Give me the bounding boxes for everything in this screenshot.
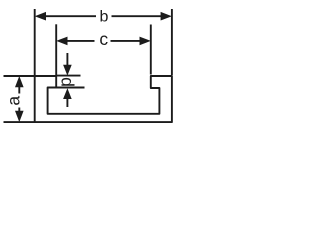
arrowhead b right — [161, 12, 172, 21]
dimension line c — [65, 40, 141, 42]
svg-text:b: b — [100, 8, 109, 25]
extension line a top — [4, 75, 35, 77]
svg-text:a: a — [3, 96, 23, 106]
dimension line a — [18, 86, 20, 112]
arrowhead p upper (points down) — [63, 65, 72, 76]
p upper arrow tail — [66, 53, 68, 66]
extension line b right — [171, 9, 173, 75]
extension line b left — [34, 9, 36, 76]
arrowhead a top — [15, 76, 24, 87]
extension line a bottom — [4, 121, 35, 123]
extension line p top — [56, 75, 80, 77]
p lower arrow tail — [66, 99, 68, 108]
svg-text:c: c — [99, 29, 108, 49]
svg-text:p: p — [55, 77, 75, 87]
extension line c left — [55, 24, 57, 75]
arrowhead a bottom — [15, 111, 24, 122]
arrowhead c left — [56, 37, 67, 46]
arrowhead p lower (points up) — [63, 88, 72, 99]
arrowhead c right — [140, 37, 151, 46]
extension line c right — [150, 25, 152, 75]
dimension line b — [44, 15, 162, 17]
profile outline — [35, 76, 172, 122]
arrowhead b left — [35, 12, 46, 21]
extension line p bottom — [56, 87, 84, 89]
